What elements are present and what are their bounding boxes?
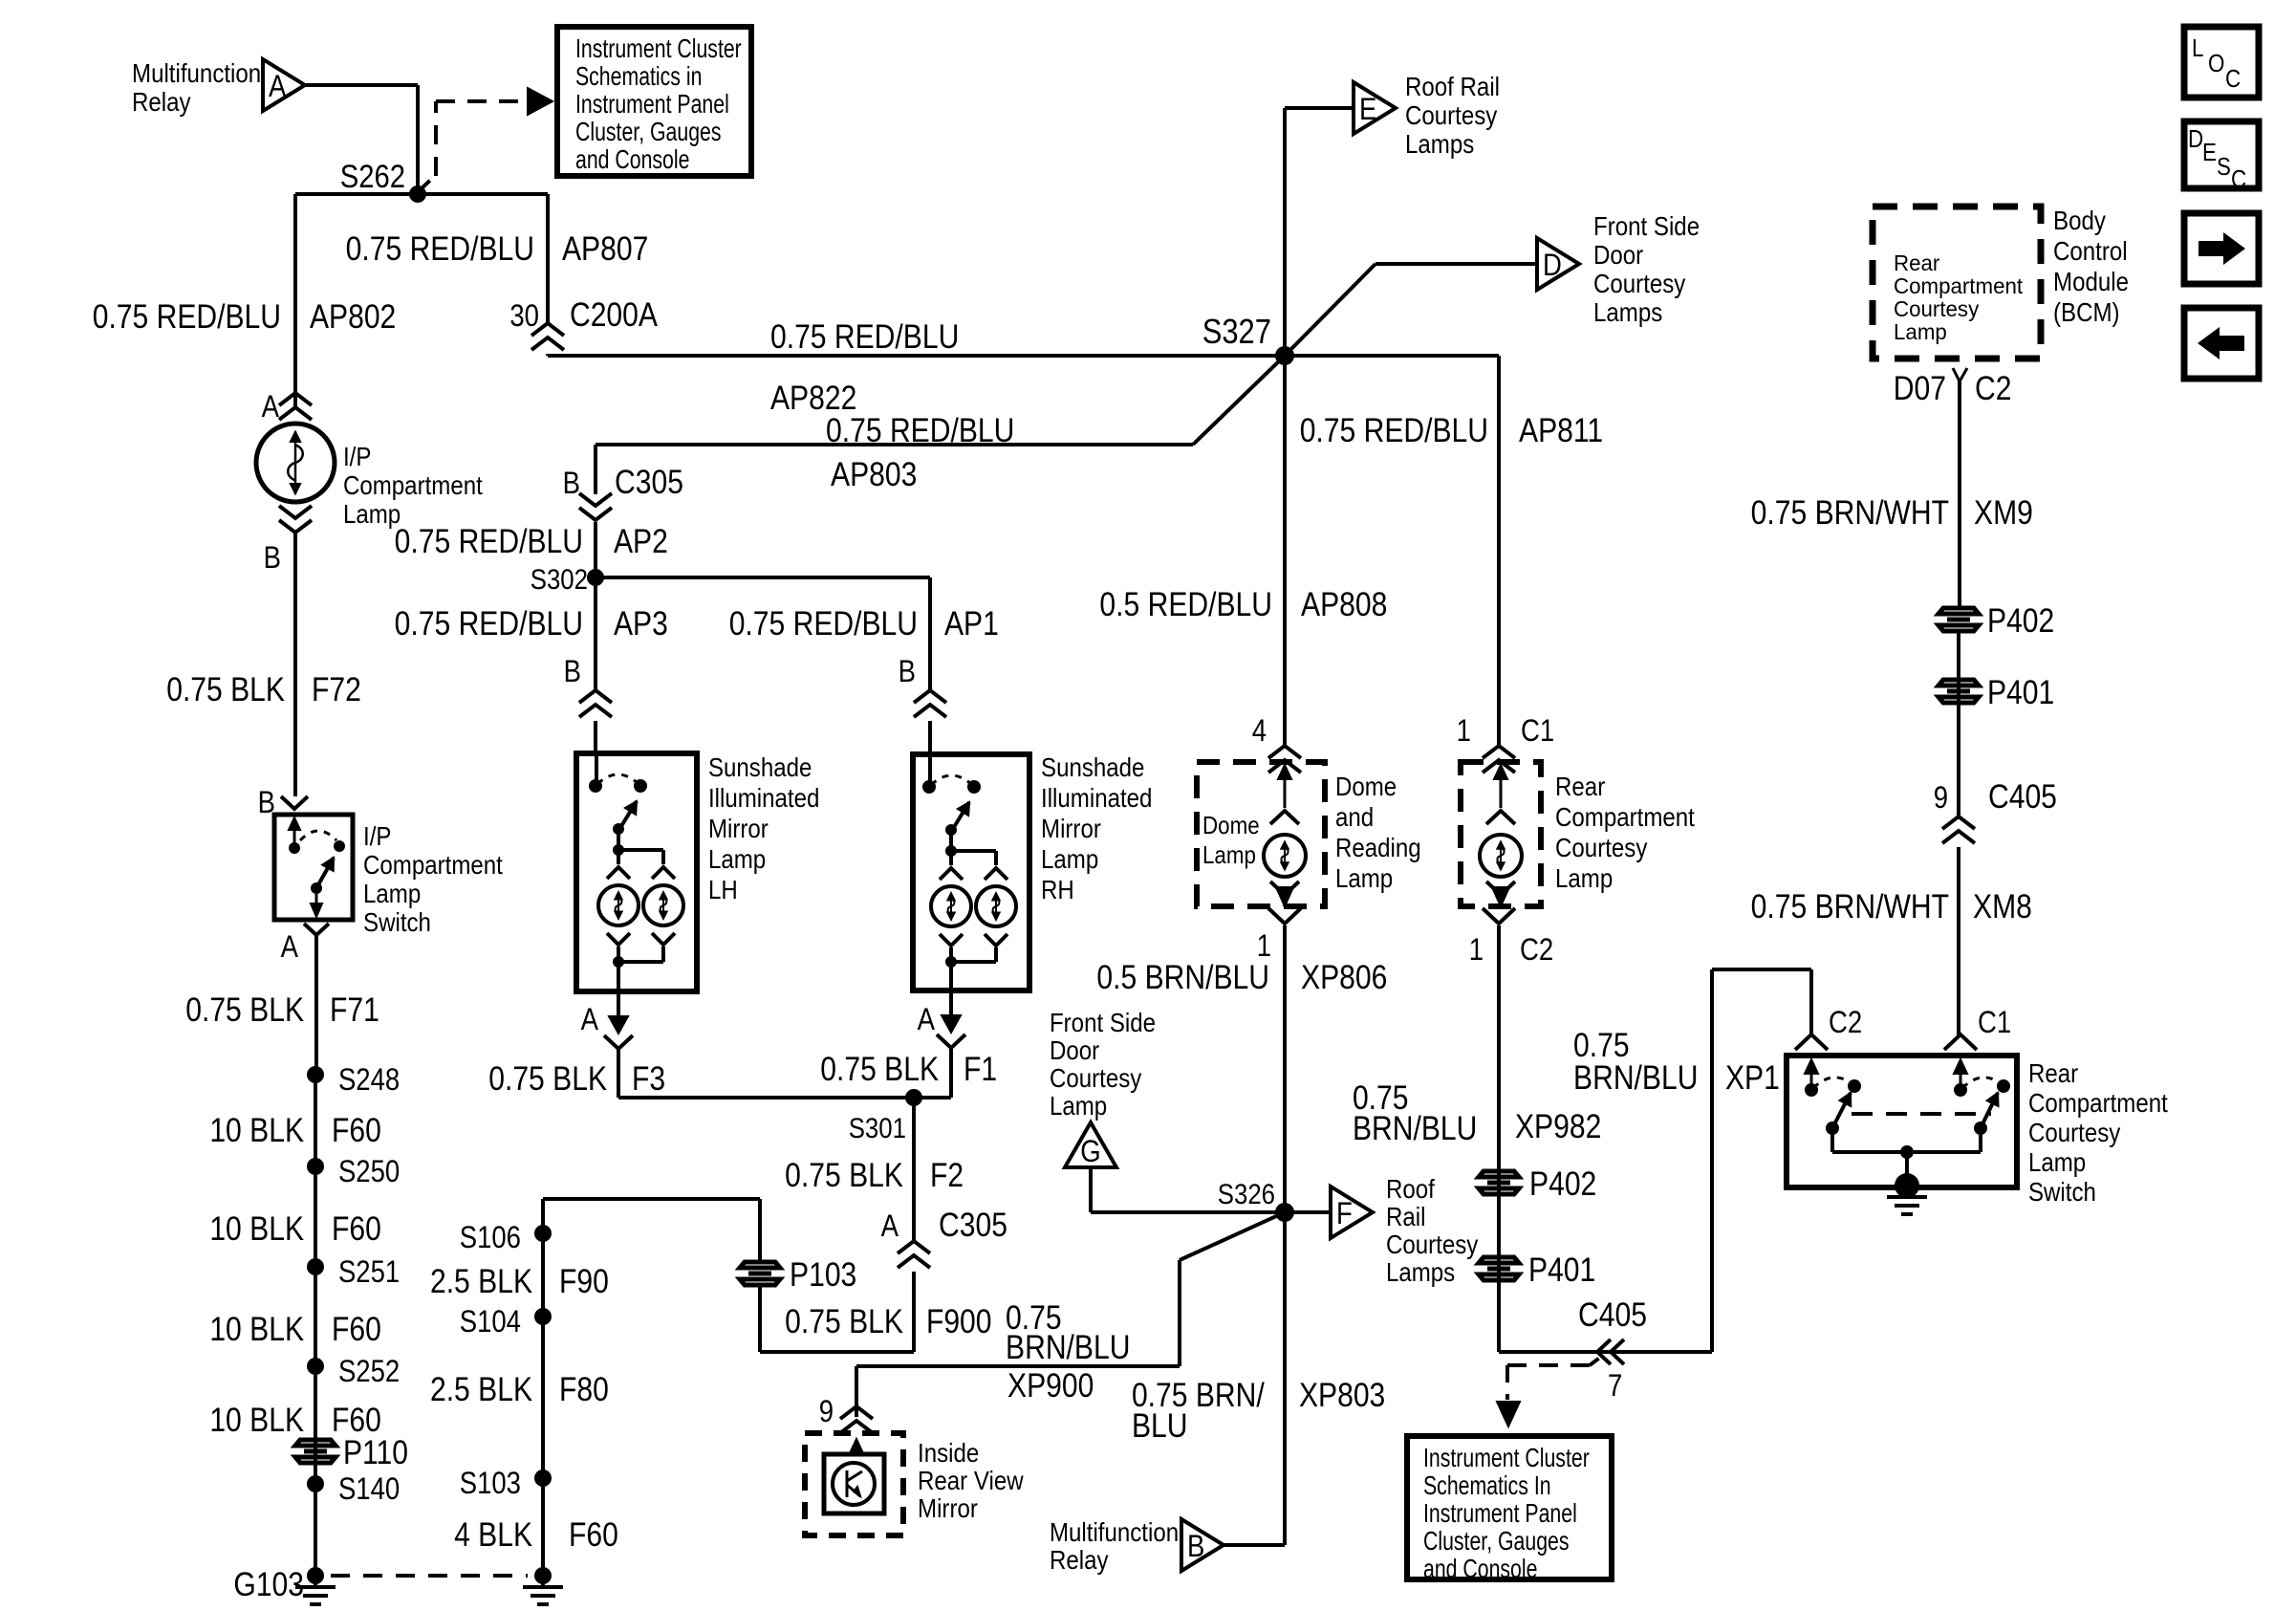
body control module dashed box (1873, 207, 2041, 359)
grommet P401 (left chain) (1479, 1257, 1519, 1280)
connector triangle F (roof rail courtesy lamps) (1331, 1186, 1373, 1238)
svg-text:Cluster, Gauges: Cluster, Gauges (575, 117, 722, 147)
svg-text:Mirror: Mirror (708, 813, 769, 843)
switch internals dashed tie (1852, 1112, 1991, 1116)
svg-text:F71: F71 (330, 991, 379, 1029)
svg-text:P402: P402 (1987, 601, 2054, 640)
svg-text:B: B (564, 655, 581, 688)
svg-text:E: E (2202, 139, 2217, 166)
svg-text:B: B (899, 655, 916, 688)
svg-text:Illuminated: Illuminated (708, 782, 819, 813)
grommet P103 (740, 1262, 780, 1285)
svg-text:4 BLK: 4 BLK (454, 1515, 532, 1554)
wire from G to S326 (1089, 1167, 1093, 1212)
svg-text:Mirror: Mirror (1041, 813, 1101, 843)
svg-text:C405: C405 (1578, 1295, 1647, 1334)
svg-text:2.5 BLK: 2.5 BLK (430, 1262, 532, 1300)
wire F900 loop to P103 (912, 1272, 916, 1352)
svg-text:Instrument Panel: Instrument Panel (575, 89, 729, 120)
svg-text:Compartment: Compartment (2028, 1087, 2169, 1118)
terminal below sunshade RH (949, 991, 953, 1015)
dome and reading lamp dashed box (1197, 762, 1325, 906)
svg-text:C305: C305 (615, 463, 683, 501)
svg-text:Rear: Rear (1555, 771, 1605, 801)
svg-text:Sunshade: Sunshade (1041, 751, 1144, 782)
svg-text:AP802: AP802 (310, 297, 396, 336)
I/P compartment lamp (256, 424, 335, 502)
svg-text:F1: F1 (964, 1050, 997, 1088)
connector C405 (bottom) (1597, 1339, 1611, 1364)
connector sunshade RH pin B (914, 690, 946, 703)
svg-text:Multifunction: Multifunction (1050, 1516, 1179, 1547)
svg-text:B: B (1187, 1530, 1204, 1563)
wire F2 (912, 1098, 916, 1242)
wire AP822 horizontal (546, 354, 550, 356)
svg-text:2.5 BLK: 2.5 BLK (430, 1370, 532, 1408)
svg-text:Lamp: Lamp (2028, 1146, 2086, 1177)
svg-text:F60: F60 (332, 1310, 381, 1348)
svg-text:D: D (2188, 125, 2203, 153)
svg-text:C2: C2 (1975, 369, 2011, 407)
svg-text:0.75 BLK: 0.75 BLK (820, 1050, 939, 1088)
connector mirror pin 9 (840, 1406, 873, 1419)
svg-text:XP1: XP1 (1725, 1058, 1780, 1097)
svg-text:Compartment: Compartment (1555, 801, 1696, 832)
svg-text:Courtesy: Courtesy (1555, 832, 1647, 862)
terminal below lamp switch (304, 924, 329, 935)
wire F3 to S301 (618, 1096, 951, 1099)
svg-text:and Console: and Console (575, 144, 689, 175)
wire XP900 to inside rear view mirror (1180, 1212, 1285, 1260)
switch internals common (1832, 1150, 1981, 1154)
connector C405 pin 9 (1942, 816, 1975, 829)
svg-text:Compartment: Compartment (343, 469, 484, 500)
wire AP802 vertical (293, 194, 297, 407)
svg-text:S251: S251 (338, 1255, 400, 1289)
connector at I/P compartment lamp pin A (279, 393, 312, 405)
junction S252 (307, 1358, 324, 1375)
svg-text:Front Side: Front Side (1593, 210, 1700, 241)
sunshade illuminated mirror lamp LH box (576, 753, 697, 991)
svg-text:BRN/BLU: BRN/BLU (1573, 1058, 1698, 1097)
svg-text:Rear View: Rear View (918, 1465, 1024, 1495)
svg-text:XP982: XP982 (1515, 1107, 1601, 1145)
svg-text:Switch: Switch (2028, 1176, 2096, 1207)
svg-text:Reading: Reading (1335, 832, 1421, 862)
wire from multifunction relay B (1224, 1543, 1285, 1547)
sunshade LH lamp branch wires (617, 850, 620, 864)
junction S103 (534, 1469, 552, 1487)
lamp switch internals (293, 824, 296, 848)
connector sunshade LH pin B (579, 690, 612, 703)
svg-text:AP2: AP2 (614, 522, 668, 560)
svg-text:XM8: XM8 (1973, 887, 2032, 925)
wire F3 (617, 1047, 620, 1098)
svg-text:D: D (1543, 249, 1562, 282)
svg-text:C200A: C200A (570, 295, 658, 334)
wire AP803 (1193, 356, 1285, 445)
svg-text:0.75 BRN/WHT: 0.75 BRN/WHT (1751, 887, 1949, 925)
svg-text:Lamps: Lamps (1405, 128, 1474, 159)
connector switch pin C2 (1795, 1034, 1828, 1050)
svg-text:XM9: XM9 (1974, 493, 2033, 532)
sunshade RH bulb 1 (931, 886, 971, 926)
sunshade RH switch internals (928, 754, 932, 787)
sunshade LH bulb 2 (643, 885, 683, 925)
wire XP806 (1283, 925, 1287, 1212)
svg-text:F900: F900 (926, 1302, 992, 1340)
wire to roof rail courtesy lamps E (1283, 108, 1287, 356)
svg-text:C1: C1 (1521, 714, 1554, 748)
svg-text:0.75 BLK: 0.75 BLK (185, 991, 304, 1029)
sunshade LH switch internals (595, 753, 598, 786)
svg-text:BRN/BLU: BRN/BLU (1353, 1109, 1477, 1147)
svg-text:0.75 RED/BLU: 0.75 RED/BLU (770, 317, 959, 356)
svg-text:I/P: I/P (343, 441, 371, 471)
svg-text:B: B (563, 467, 580, 500)
wire from S326 to F (1285, 1210, 1331, 1214)
connector triangle A (multifunction relay) (263, 59, 305, 111)
svg-text:Rail: Rail (1386, 1201, 1425, 1231)
svg-text:and: and (1335, 801, 1374, 832)
svg-text:A: A (881, 1209, 899, 1243)
wire AP807 drop to C200A (418, 192, 548, 196)
svg-text:C2: C2 (1520, 933, 1553, 967)
svg-text:Lamp: Lamp (1050, 1090, 1107, 1121)
wire S262 left branch (295, 192, 418, 196)
connector D07 C2 fork (1953, 368, 1967, 381)
wire XM8 (1957, 847, 1960, 1037)
svg-text:AP1: AP1 (944, 604, 999, 642)
svg-text:Dome: Dome (1202, 812, 1260, 839)
sunshade RH bulb output wires (940, 934, 963, 946)
svg-text:F2: F2 (930, 1156, 964, 1194)
svg-text:A: A (581, 1003, 598, 1036)
svg-text:Courtesy: Courtesy (1386, 1229, 1478, 1259)
svg-text:C2: C2 (1829, 1006, 1862, 1039)
svg-text:S140: S140 (338, 1472, 400, 1506)
svg-text:Schematics in: Schematics in (575, 61, 702, 92)
svg-text:C: C (2225, 65, 2241, 93)
svg-text:Rear: Rear (1894, 250, 1940, 275)
svg-text:G103: G103 (233, 1565, 304, 1603)
svg-text:F90: F90 (559, 1262, 609, 1300)
svg-text:F80: F80 (559, 1370, 609, 1408)
svg-text:LH: LH (708, 874, 738, 904)
svg-text:Courtesy: Courtesy (2028, 1117, 2120, 1147)
svg-text:Dome: Dome (1335, 771, 1397, 801)
svg-text:Instrument Panel: Instrument Panel (1423, 1498, 1577, 1529)
connector below I/P compartment lamp pin B (279, 506, 312, 518)
svg-text:Courtesy: Courtesy (1405, 99, 1497, 130)
connector dome lamp pin 4 (1268, 746, 1301, 758)
svg-text:AP811: AP811 (1519, 411, 1603, 449)
terminal below sunshade LH (617, 991, 620, 1016)
svg-text:S301: S301 (849, 1112, 906, 1143)
svg-text:Roof Rail: Roof Rail (1405, 71, 1500, 101)
svg-text:10 BLK: 10 BLK (209, 1401, 304, 1439)
svg-text:and Console: and Console (1423, 1554, 1537, 1584)
box Instrument Cluster Schematics (top) (557, 27, 751, 176)
svg-text:Courtesy: Courtesy (1894, 296, 1980, 321)
svg-text:Courtesy: Courtesy (1593, 268, 1685, 298)
connector triangle E (roof rail courtesy lamps) (1354, 82, 1396, 134)
svg-text:S302: S302 (531, 563, 588, 595)
sunshade illuminated mirror lamp RH box (913, 754, 1029, 991)
svg-text:P402: P402 (1529, 1165, 1596, 1203)
connector triangle D (front side door courtesy lamps) (1537, 238, 1579, 290)
svg-text:AP803: AP803 (831, 455, 917, 493)
svg-text:Lamps: Lamps (1593, 296, 1662, 327)
svg-text:0.5 BRN/BLU: 0.5 BRN/BLU (1096, 958, 1269, 996)
svg-text:0.75 RED/BLU: 0.75 RED/BLU (395, 522, 583, 560)
svg-text:S106: S106 (460, 1221, 521, 1254)
svg-text:D07: D07 (1894, 369, 1946, 407)
svg-text:Roof: Roof (1386, 1173, 1436, 1204)
svg-text:XP803: XP803 (1299, 1376, 1385, 1414)
svg-text:A: A (262, 390, 279, 424)
svg-text:9: 9 (819, 1395, 834, 1428)
connector dome lamp pin 1 (1268, 908, 1301, 924)
wire to front side door courtesy lamps D (1285, 264, 1375, 356)
connector at lamp switch pin B (281, 796, 308, 809)
switch ground (1895, 1173, 1919, 1198)
svg-text:Module: Module (2053, 266, 2129, 296)
wire XP1 (1710, 969, 1714, 1352)
wire F72 (293, 533, 297, 796)
svg-text:BLU: BLU (1132, 1406, 1188, 1445)
svg-text:BRN/BLU: BRN/BLU (1006, 1328, 1130, 1366)
svg-text:0.75 BLK: 0.75 BLK (785, 1156, 903, 1194)
svg-text:B: B (264, 541, 281, 575)
sunshade RH bulb 2 (976, 886, 1016, 926)
svg-text:G: G (1080, 1135, 1100, 1168)
svg-text:P401: P401 (1528, 1251, 1595, 1289)
svg-text:Mirror: Mirror (918, 1492, 978, 1523)
svg-text:Cluster, Gauges: Cluster, Gauges (1423, 1526, 1570, 1557)
svg-text:Control: Control (2053, 235, 2128, 266)
svg-text:7: 7 (1608, 1369, 1622, 1403)
junction S251 (307, 1258, 324, 1275)
wire XP982 (1497, 925, 1501, 1352)
wire from P103 to S106 (758, 1199, 762, 1262)
connector triangle B (multifunction relay) (1181, 1519, 1224, 1571)
connector switch pin C1 (1944, 1034, 1977, 1050)
svg-text:F3: F3 (632, 1059, 665, 1098)
svg-text:1: 1 (1457, 714, 1471, 748)
svg-text:(BCM): (BCM) (2053, 296, 2120, 327)
svg-text:Instrument Cluster: Instrument Cluster (1423, 1443, 1590, 1473)
junction S302 (587, 569, 604, 586)
svg-text:AP808: AP808 (1301, 585, 1387, 623)
svg-text:RH: RH (1041, 874, 1074, 904)
svg-text:Inside: Inside (918, 1437, 979, 1468)
svg-text:Sunshade: Sunshade (708, 751, 812, 782)
svg-text:S248: S248 (338, 1063, 400, 1097)
rear courtesy lamp lower pin (1486, 882, 1515, 895)
legend box LOC (2184, 27, 2259, 98)
wire AP2 (594, 522, 597, 577)
svg-text:Door: Door (1050, 1034, 1099, 1065)
svg-text:F: F (1336, 1197, 1353, 1230)
rear compartment courtesy lamp dashed box (1461, 762, 1541, 906)
svg-text:Switch: Switch (363, 906, 431, 937)
switch internals right (1960, 1071, 1962, 1090)
legend box arrow right (2184, 213, 2259, 284)
svg-text:S326: S326 (1218, 1178, 1275, 1209)
svg-text:C: C (2231, 165, 2246, 193)
svg-text:A: A (281, 930, 298, 964)
ground G103 left (307, 1567, 324, 1584)
svg-text:A: A (269, 70, 286, 103)
svg-text:AP807: AP807 (562, 229, 648, 268)
svg-text:Compartment: Compartment (1894, 273, 2024, 298)
connector C305 pin B (579, 493, 612, 506)
svg-text:Lamp: Lamp (1041, 843, 1098, 874)
dashed ground tie G103 (331, 1574, 528, 1578)
wire to C405 (1499, 1350, 1712, 1354)
rear courtesy lamp bulb (1480, 835, 1522, 877)
svg-text:S: S (2217, 153, 2231, 181)
svg-text:P103: P103 (790, 1255, 856, 1294)
sunshade RH lamp branch wires (949, 851, 953, 865)
connector rear courtesy lamp pin 1 C2 (1483, 908, 1515, 924)
svg-text:0.75 BLK: 0.75 BLK (488, 1059, 607, 1098)
grommet P402 (left chain) (1479, 1171, 1519, 1194)
junction S106 (534, 1225, 552, 1242)
svg-text:0.75 RED/BLU: 0.75 RED/BLU (1300, 411, 1488, 449)
svg-text:0.75 RED/BLU: 0.75 RED/BLU (395, 604, 583, 642)
svg-text:F72: F72 (312, 670, 361, 708)
svg-text:Illuminated: Illuminated (1041, 782, 1152, 813)
svg-text:30: 30 (509, 299, 539, 333)
svg-text:Lamps: Lamps (1386, 1256, 1455, 1287)
svg-text:C405: C405 (1988, 777, 2057, 816)
legend box arrow left (2184, 308, 2259, 379)
dashed reference arrow to instrument cluster box (bottom) (1590, 1354, 1605, 1365)
svg-text:S327: S327 (1202, 314, 1271, 352)
dome lamp bulb (1264, 835, 1306, 877)
svg-text:Lamp: Lamp (363, 878, 421, 908)
svg-text:Lamp: Lamp (708, 843, 766, 874)
grommet P402 (right chain) (1939, 608, 1979, 631)
connector C200A (531, 323, 564, 336)
wire XM9-XM8 (1957, 630, 1960, 817)
sunshade LH bulb output wires (607, 933, 630, 945)
grommet P401 (right chain) (1939, 680, 1979, 703)
dome lamp internals (1284, 776, 1287, 808)
svg-text:A: A (918, 1003, 935, 1036)
svg-text:0.75 RED/BLU: 0.75 RED/BLU (729, 604, 918, 642)
svg-text:10 BLK: 10 BLK (209, 1310, 304, 1348)
svg-text:0.75 BRN/WHT: 0.75 BRN/WHT (1751, 493, 1949, 532)
ground G103 right (534, 1567, 552, 1584)
junction S248 (307, 1066, 324, 1083)
junction S262 (409, 185, 426, 203)
svg-text:P401: P401 (1987, 673, 2054, 711)
svg-text:Lamp: Lamp (343, 498, 401, 529)
svg-text:O: O (2208, 50, 2224, 77)
svg-text:Lamp: Lamp (1335, 862, 1393, 893)
svg-text:Relay: Relay (132, 86, 191, 117)
svg-text:Body: Body (2053, 205, 2106, 235)
svg-text:0.5 RED/BLU: 0.5 RED/BLU (1099, 585, 1272, 623)
svg-text:Door: Door (1593, 239, 1643, 270)
junction S250 (307, 1158, 324, 1175)
svg-text:P110: P110 (343, 1433, 408, 1471)
grommet P110 (295, 1440, 336, 1463)
wire XP803 (1283, 1212, 1287, 1545)
svg-text:0.75 RED/BLU: 0.75 RED/BLU (346, 229, 534, 268)
svg-text:Multifunction: Multifunction (132, 57, 261, 88)
svg-text:F60: F60 (332, 1209, 381, 1248)
wire F71 and ground chain (314, 935, 318, 1075)
svg-text:C1: C1 (1978, 1006, 2011, 1039)
svg-text:4: 4 (1252, 714, 1267, 748)
junction S104 (534, 1308, 552, 1325)
connector C305 pin A (898, 1241, 930, 1253)
wire to sunshade RH (596, 576, 930, 579)
svg-text:S103: S103 (460, 1467, 521, 1500)
switch internals left (1810, 1071, 1813, 1090)
svg-text:1: 1 (1469, 933, 1484, 967)
svg-text:E: E (1359, 93, 1376, 126)
svg-text:AP3: AP3 (614, 604, 668, 642)
svg-text:XP806: XP806 (1301, 958, 1387, 996)
svg-text:C305: C305 (939, 1206, 1007, 1244)
mirror internals (856, 1450, 858, 1454)
svg-text:Relay: Relay (1050, 1544, 1109, 1575)
svg-text:Rear: Rear (2028, 1057, 2078, 1088)
svg-text:Compartment: Compartment (363, 849, 504, 880)
junction S140 (307, 1475, 324, 1492)
svg-text:0.75 RED/BLU: 0.75 RED/BLU (93, 297, 281, 336)
svg-text:Schematics In: Schematics In (1423, 1470, 1551, 1501)
svg-text:I/P: I/P (363, 820, 391, 851)
svg-text:S262: S262 (340, 158, 405, 195)
svg-text:F60: F60 (332, 1111, 381, 1149)
wire AP811 (1497, 356, 1501, 747)
svg-text:Lamp: Lamp (1894, 319, 1947, 344)
inside rear view mirror dashed box (805, 1433, 903, 1535)
junction S327 (1275, 346, 1294, 365)
svg-text:Courtesy: Courtesy (1050, 1062, 1141, 1093)
wire F1 (949, 1046, 953, 1098)
wire from triangle A to S262 drop (306, 83, 418, 87)
svg-text:S252: S252 (338, 1355, 400, 1388)
rear compartment courtesy lamp switch box (1787, 1056, 2017, 1187)
I/P compartment lamp switch box (274, 815, 353, 920)
dashed reference arrow to instrument cluster box (422, 175, 436, 188)
svg-text:XP900: XP900 (1007, 1366, 1094, 1404)
svg-text:Lamp: Lamp (1202, 841, 1256, 869)
wire AP3 (594, 577, 597, 691)
legend box DESC (2184, 121, 2259, 188)
junction S326 (1275, 1203, 1294, 1222)
svg-text:9: 9 (1934, 781, 1948, 815)
dome lamp lower pin (1270, 882, 1299, 895)
svg-text:S104: S104 (460, 1305, 521, 1339)
svg-text:10 BLK: 10 BLK (209, 1111, 304, 1149)
svg-text:Lamp: Lamp (1555, 862, 1613, 893)
rear courtesy lamp internals (1500, 776, 1503, 808)
svg-text:10 BLK: 10 BLK (209, 1209, 304, 1248)
connector triangle G (front side door courtesy lamp) (1065, 1122, 1116, 1167)
sunshade LH bulb 1 (598, 885, 639, 925)
svg-text:S250: S250 (338, 1155, 400, 1188)
svg-text:0.75 BLK: 0.75 BLK (166, 670, 285, 708)
svg-text:Front Side: Front Side (1050, 1007, 1156, 1037)
